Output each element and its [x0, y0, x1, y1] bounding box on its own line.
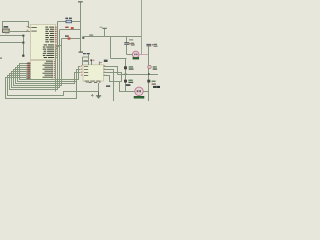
U3 name label: [83, 60, 88, 61]
bus wire 5 to U1 pin: [10, 49, 58, 90]
wire U3 out3: [104, 73, 122, 82]
U1 left pin numbers red: [27, 25, 29, 28]
wire row A pull-up: [58, 21, 81, 23]
resistor R1: [66, 20, 72, 23]
wire left input B: [0, 42, 24, 44]
bus wire 2: [16, 68, 81, 84]
motor M1: [132, 51, 139, 59]
node dot B: [22, 42, 24, 44]
capacitor C2: [146, 44, 157, 47]
wire power vertical: [104, 29, 106, 37]
U3 top pin numbers: [93, 59, 94, 62]
U1 left pin name XTAL2: [31, 31, 37, 32]
U1 left pin name XTAL1: [31, 27, 37, 28]
wire motor rail: [118, 74, 159, 76]
wire row B led: [60, 29, 81, 31]
U2 right pin numbers (red): [54, 61, 56, 78]
wire U3 out2: [104, 70, 114, 102]
wire motor2 feed: [120, 82, 135, 92]
wire vertical col B: [59, 30, 61, 47]
U3 bottom pin row: [85, 81, 101, 83]
wire vertical join to node: [23, 36, 25, 56]
wire motor1 left: [111, 55, 133, 59]
bus wire 6 ground run: [8, 76, 99, 96]
U3 driver body: [83, 65, 104, 81]
node junction dot: [22, 55, 24, 57]
wire driver feed vertical: [110, 37, 112, 59]
wire diode col left: [125, 59, 127, 92]
wire vertical col C: [61, 39, 63, 46]
bus wire 3 to U1 pin: [14, 46, 62, 86]
label near power mid: [100, 27, 103, 28]
U1 microcontroller body: [31, 25, 56, 60]
U3 left pin numbers: [81, 66, 82, 76]
led D2: [65, 35, 70, 39]
wire U3 out1: [104, 67, 118, 75]
bus wire 4 to U1 pin: [12, 47, 60, 88]
wire U1 col to bus: [55, 51, 57, 92]
U3 side label: [104, 60, 108, 62]
U2 left pin stubs: [26, 64, 30, 79]
background: [0, 0, 160, 101]
motor M2 label: [126, 84, 131, 86]
wire U3 bottom left stub: [76, 82, 78, 92]
label GND text: [106, 85, 110, 87]
wire cap1 branch: [126, 37, 128, 55]
diode D5: [148, 65, 157, 69]
diode D4: [124, 80, 133, 83]
net label blob: [82, 36, 84, 39]
crystal X1: [3, 26, 10, 32]
U3 left pin names: [84, 66, 88, 76]
U2 left pin numbers (red): [27, 62, 30, 78]
U2 latch body: [31, 61, 53, 80]
U3 top pins: [92, 60, 100, 65]
wire left edge stub: [0, 58, 2, 59]
power terminal mid: [102, 28, 107, 29]
wire right column: [148, 46, 150, 101]
wire motor1 right: [139, 54, 149, 56]
capacitor C1: [124, 39, 134, 45]
wire U3 bottom stub: [98, 83, 100, 92]
power rail VCC: [80, 2, 82, 52]
U3 right pin numbers: [104, 66, 105, 76]
motor M2: [134, 87, 144, 98]
junction dot rail-left: [125, 73, 127, 75]
wire top right drop: [141, 0, 143, 55]
resistor R1 label: [65, 18, 68, 19]
wire left input A: [0, 35, 24, 37]
junction dot rail-right: [148, 73, 150, 75]
power bar top: [78, 1, 83, 2]
power terminal small: [89, 35, 93, 36]
node dot A: [22, 35, 24, 37]
diode D3: [124, 66, 134, 69]
U3 label: [83, 53, 86, 54]
value readout dark box: [153, 86, 156, 88]
wire row C led: [62, 38, 81, 40]
wire top feed horizontal: [83, 36, 142, 38]
U1 right pin numbers (red): [55, 27, 57, 58]
wire U3 out4: [104, 76, 122, 82]
label net A: [5, 32, 9, 33]
U3 top junction blob: [90, 59, 92, 61]
diode D6: [147, 80, 156, 85]
U2 pin names: [43, 61, 54, 78]
bus wire 1: [18, 66, 81, 82]
U3 top bracket wire: [83, 54, 89, 65]
wire crystal right to XTAL2 pin: [9, 31, 30, 33]
led D1: [65, 27, 74, 30]
wire crystal left to top: [3, 22, 31, 30]
wire motor2 right: [143, 91, 148, 93]
bus wire 7 lowest loop: [6, 78, 77, 99]
wire vertical col A: [57, 22, 59, 49]
ground bar lower: [79, 52, 83, 53]
junction cross: [91, 94, 93, 96]
U1 right pin names: [43, 27, 54, 58]
bus wire 0 U2 pin1 loop to driver: [20, 64, 81, 80]
U3 bottom pin numbers: [86, 81, 100, 84]
label X1: [4, 26, 9, 27]
ground symbol: [96, 92, 101, 98]
